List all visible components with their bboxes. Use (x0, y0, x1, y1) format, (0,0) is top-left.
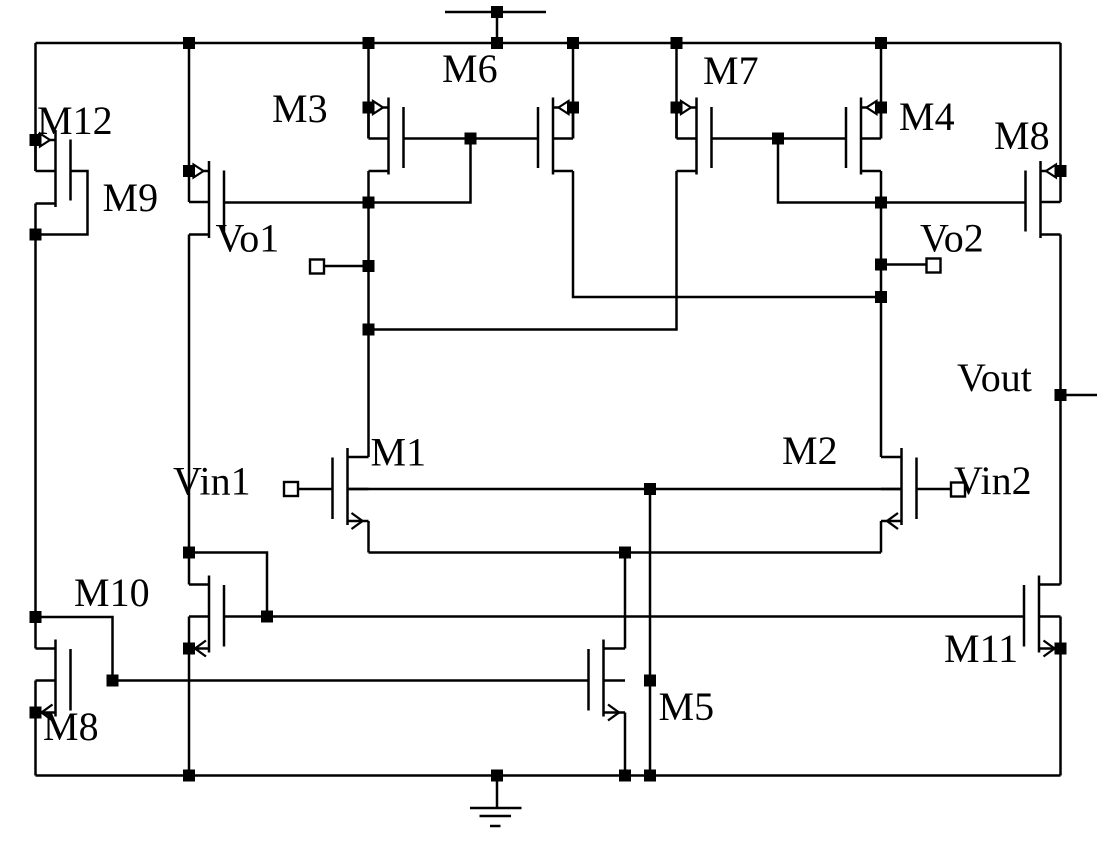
node rail-gnd (491, 770, 503, 782)
wire pair1 gate line (404, 137, 539, 140)
svg-text:Vo1: Vo1 (216, 216, 280, 261)
node pair2 gate junction (772, 133, 784, 145)
wire M8 upper gate lead (881, 201, 1026, 204)
wire VDD top rail (36, 42, 1061, 45)
wire M5 source (624, 713, 627, 776)
transistor M9 (208, 161, 211, 238)
wire VDD bar (445, 11, 546, 14)
node rail-M4 (875, 37, 887, 49)
wire mid-to-rail (649, 489, 652, 776)
node VDD tap (491, 6, 503, 18)
svg-text:M6: M6 (442, 46, 498, 91)
svg-text:M3: M3 (272, 86, 328, 131)
wire M7 supply (675, 43, 678, 139)
wire M1-M2 mid line (348, 488, 902, 491)
svg-text:Vout: Vout (957, 355, 1032, 400)
transistor M4 (860, 98, 863, 175)
wire gate line M10-M11 (224, 615, 1024, 618)
node M10 drain tap (183, 547, 195, 559)
wire M6 drain (573, 171, 881, 297)
wire M9 drain (188, 235, 191, 585)
node M12 drain (30, 229, 42, 241)
wire right border upper (1059, 43, 1062, 171)
svg-text:Vin1: Vin1 (173, 459, 251, 504)
node rail-M7 (671, 37, 683, 49)
node M3 drain junction (363, 197, 375, 209)
ground (496, 776, 499, 809)
svg-text:M8: M8 (994, 113, 1050, 158)
wire left border lower (34, 681, 37, 776)
wire right border mid (1059, 235, 1062, 585)
svg-text:M8: M8 (43, 704, 99, 749)
transistor M11 (1038, 576, 1041, 653)
svg-text:M2: M2 (782, 428, 838, 473)
transistor M7 (695, 98, 698, 175)
node rail-M6 (567, 37, 579, 49)
wire M3 supply (367, 43, 370, 139)
node rail-M3 (363, 37, 375, 49)
transistor M10 (208, 576, 211, 653)
node M11 source (1055, 643, 1067, 655)
wire M1 source (367, 521, 370, 553)
node M6-drain-to-Vo2 (875, 291, 887, 303)
wire pair1 gate to drain (369, 139, 471, 203)
node Vo2 (875, 259, 887, 271)
wire tail line (369, 551, 882, 554)
terminal Vin2 (951, 483, 965, 497)
transistor M1 (346, 448, 349, 525)
node M8 lower source (30, 707, 42, 719)
wire pair2 gate to drain (778, 139, 881, 203)
wire M9 gate lead (224, 201, 369, 204)
wire left border mid (34, 204, 37, 649)
terminal Vout (1061, 394, 1097, 397)
wire M2 gate lead (917, 488, 952, 491)
wire M7 drain (369, 171, 677, 330)
transistor M3 (387, 98, 390, 175)
transistor M8 lower (54, 640, 57, 717)
terminal Vo2 (881, 263, 929, 266)
wire bottom rail (36, 774, 1061, 777)
svg-text:M7: M7 (703, 48, 759, 93)
wire M10 drain top (189, 553, 267, 617)
wire left border upper (34, 43, 37, 171)
node tail-M5 (619, 547, 631, 559)
node M7-drain-to-Vo1 (363, 324, 375, 336)
node rail-M9 (183, 37, 195, 49)
terminal Vin1 (298, 488, 333, 491)
wire right border lower (1059, 617, 1062, 776)
node rail-VDD (491, 37, 503, 49)
wire M3 drain (367, 171, 370, 457)
transistor M12 (54, 130, 57, 207)
node M10 source (183, 643, 195, 655)
node M3 source (363, 102, 375, 114)
node rail-M5 (619, 770, 631, 782)
transistor M6 (552, 98, 555, 175)
wire M5 drain (624, 553, 627, 649)
svg-text:M11: M11 (944, 626, 1018, 671)
terminal Vo1 (324, 265, 369, 268)
transistor M5 (602, 640, 605, 717)
svg-text:Vo2: Vo2 (920, 216, 984, 261)
wire M12 gate loop (36, 171, 88, 235)
svg-text:M9: M9 (103, 175, 159, 220)
svg-text:M5: M5 (659, 684, 715, 729)
node gate line corner (261, 611, 273, 623)
wire M10 source down (188, 617, 191, 776)
node rail-mid (644, 770, 656, 782)
svg-text:M10: M10 (74, 570, 150, 615)
svg-text:Vin2: Vin2 (954, 458, 1032, 503)
node M4 drain junction (875, 197, 887, 209)
node pair1 gate junction (465, 133, 477, 145)
node M8 lower gate corner (107, 675, 119, 687)
wire M8 lower gate path (36, 617, 589, 681)
wire M9 supply (188, 43, 191, 171)
node rail-M10 (183, 770, 195, 782)
svg-text:M4: M4 (899, 94, 955, 139)
node Vout (1055, 389, 1067, 401)
node Vo1 (363, 260, 375, 272)
wire M2 source (880, 521, 883, 553)
wire M4 drain (880, 171, 883, 457)
svg-text:M1: M1 (371, 430, 427, 475)
svg-text:M12: M12 (37, 98, 113, 143)
node M8 lower drain tap (30, 611, 42, 623)
node mid-rail junction (644, 675, 656, 687)
transistor M2 (900, 448, 903, 525)
node mid line junction (644, 483, 656, 495)
wire pair2 gate line (712, 137, 847, 140)
transistor M8 upper (1039, 161, 1042, 238)
wire M4 supply (880, 43, 883, 139)
wire M6 supply (572, 43, 575, 139)
